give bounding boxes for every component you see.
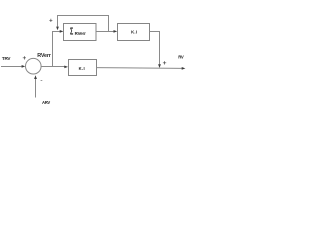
svg-text:RV: RV (178, 55, 184, 60)
svg-text:RVerr: RVerr (37, 53, 52, 59)
svg-text:+: + (23, 55, 27, 62)
svg-text:Σ: Σ (70, 26, 73, 37)
svg-text:RVerr: RVerr (75, 31, 87, 36)
svg-text:+: + (163, 60, 167, 67)
svg-text:+: + (49, 18, 53, 24)
svg-text:TRV: TRV (2, 56, 12, 61)
svg-text:K.I: K.I (79, 66, 85, 71)
svg-text:K.I: K.I (131, 29, 137, 34)
svg-text:ARV: ARV (42, 100, 50, 105)
